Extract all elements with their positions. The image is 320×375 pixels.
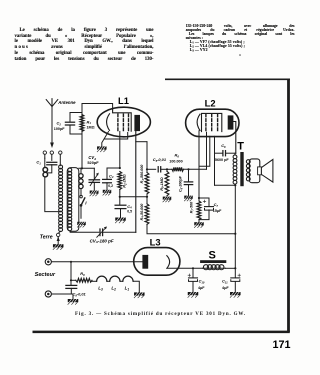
svg-text:100.000: 100.000 bbox=[169, 159, 182, 163]
tuning coil primary bbox=[59, 165, 63, 169]
ground Terre bbox=[53, 244, 64, 247]
ground below R5 bbox=[163, 197, 172, 200]
figure frame bottom rule bbox=[33, 331, 290, 334]
capacitor C8 loop bottom wire bbox=[215, 184, 236, 186]
terminal antenna 1 bbox=[43, 151, 46, 154]
switch I bbox=[80, 195, 83, 198]
tube L2 cathode bbox=[197, 114, 200, 130]
wire R4 to B+ bus bbox=[147, 224, 235, 233]
speaker neck bbox=[258, 167, 262, 175]
svg-text:1MΩ: 1MΩ bbox=[87, 126, 95, 130]
terminal antenna 2 bbox=[50, 151, 53, 154]
capacitor C2 bbox=[70, 113, 82, 122]
ground below C6 bbox=[184, 196, 193, 199]
ground below C10 bbox=[188, 292, 199, 295]
capacitor C6 bbox=[188, 169, 190, 181]
tube L1 grid 2 bbox=[122, 114, 124, 131]
grid cap wire to L1 top bbox=[82, 104, 113, 111]
svg-text:15μF: 15μF bbox=[213, 209, 222, 213]
svg-text:0,2: 0,2 bbox=[108, 184, 113, 188]
tube L1 anode wire down bbox=[135, 131, 137, 232]
antenna coupling coil bbox=[44, 158, 46, 167]
right column text bbox=[186, 24, 295, 56]
left column text bbox=[15, 28, 154, 63]
svg-text:4μF: 4μF bbox=[198, 286, 205, 290]
tube L3 cathode wire bbox=[168, 267, 203, 269]
ground heater end bbox=[134, 292, 145, 295]
ground below C3 bbox=[103, 190, 112, 193]
resistor R8 bbox=[76, 278, 92, 282]
tube L1 suppressor tie wire bbox=[105, 133, 128, 140]
capacitor C4 bbox=[115, 204, 126, 206]
svg-text:Terre: Terre bbox=[40, 235, 53, 241]
capacitor C10 bbox=[189, 277, 198, 279]
ground below CVa bbox=[90, 191, 99, 194]
speaker horn bbox=[261, 159, 273, 182]
capacitor C5-0,01 bbox=[157, 167, 159, 172]
capacitor C7 bbox=[205, 206, 214, 208]
svg-text:L1: L1 bbox=[118, 95, 129, 106]
svg-text:L2: L2 bbox=[205, 98, 216, 109]
ground below R7 bbox=[194, 222, 204, 225]
heater choke L1 bbox=[120, 280, 123, 282]
transformer T primary coil bbox=[233, 155, 237, 159]
B+ rail wire bbox=[234, 185, 236, 268]
svg-text:100pF: 100pF bbox=[54, 127, 65, 131]
tube L2 cathode wire to R7 bbox=[198, 131, 200, 201]
node R2 bottom junction wire bbox=[120, 196, 147, 198]
tube L1 cathode bbox=[107, 114, 110, 131]
svg-text:4μF: 4μF bbox=[222, 286, 229, 290]
svg-text:520pF: 520pF bbox=[87, 160, 99, 165]
choke S core bbox=[200, 260, 226, 263]
antenna symbol bbox=[46, 99, 58, 107]
ground below C4 bbox=[115, 218, 126, 221]
tube L2 grid 1 bbox=[205, 114, 207, 131]
ground mains bbox=[72, 294, 74, 299]
svg-text:S: S bbox=[209, 250, 216, 262]
tube L1 grid2 wire down bbox=[119, 131, 121, 168]
wire R6 to grid of L2 bbox=[184, 168, 207, 170]
choke S right wire bbox=[226, 267, 236, 269]
antenna arrowhead bbox=[50, 143, 54, 149]
variable capacitor CVa-180pF bbox=[99, 229, 101, 236]
wire to C5 bbox=[147, 168, 156, 170]
wire R2 to C4 bbox=[119, 190, 121, 205]
choke S coil bbox=[203, 267, 226, 269]
tube L2 grid box bbox=[202, 113, 222, 131]
figure frame top rule bbox=[165, 78, 290, 80]
tube L1 anode bbox=[134, 115, 140, 131]
svg-text:Antenne: Antenne bbox=[57, 100, 76, 105]
svg-text:Secteur: Secteur bbox=[35, 272, 56, 278]
svg-text:Fig. 3. — Schéma simplifié du: Fig. 3. — Schéma simplifié du récepteur … bbox=[75, 312, 246, 317]
tube L2 envelope bbox=[186, 109, 239, 136]
wire coil secondary bottom to CVa-180 bbox=[70, 231, 99, 232]
wire mains to R8 and C9 bbox=[70, 262, 72, 285]
transformer T secondary coil bbox=[246, 160, 250, 164]
transformer T core bbox=[240, 152, 243, 186]
plus mark C10 bbox=[188, 274, 191, 276]
tube L3 envelope bbox=[134, 248, 180, 276]
antenna lead wire bbox=[51, 107, 53, 144]
capacitor C3 branch wire bbox=[107, 168, 120, 179]
plus mark C11 bbox=[238, 274, 241, 276]
anode jog wire to R3 bbox=[136, 141, 147, 143]
resistor R5 bbox=[166, 169, 168, 171]
capacitor C8 top wire bbox=[215, 152, 223, 154]
resistor R1 bbox=[80, 115, 84, 132]
capacitor C7 wires bbox=[199, 198, 209, 206]
wire R7 to ground bbox=[198, 220, 200, 222]
resistor R2 bbox=[118, 172, 122, 190]
capacitor C8 bbox=[222, 151, 224, 156]
wire grid column bbox=[81, 104, 83, 169]
capacitor C10 wire bbox=[192, 268, 194, 277]
heater choke L3 bbox=[92, 280, 97, 282]
svg-text:171: 171 bbox=[272, 339, 290, 351]
figure frame right rule bbox=[287, 79, 290, 332]
svg-text:L3: L3 bbox=[150, 237, 161, 248]
tuning coil secondary bbox=[68, 168, 72, 172]
plus mark C7 bbox=[203, 200, 206, 202]
svg-text:5600 pF: 5600 pF bbox=[215, 158, 229, 162]
capacitor C8 loop left wire bbox=[214, 153, 216, 185]
heater choke L2 bbox=[107, 280, 110, 282]
variable capacitor CVa 520pF bbox=[93, 168, 95, 179]
tube L1 cathode lead and ground bbox=[102, 132, 109, 147]
svg-text:T: T bbox=[237, 140, 244, 152]
resistor R6 bbox=[172, 167, 184, 171]
mains wire top to rectifier anode bbox=[52, 261, 143, 263]
capacitor C11 wire bbox=[234, 268, 236, 277]
tube L1 grid 3 bbox=[128, 114, 130, 131]
tube L2 anode bbox=[228, 115, 234, 129]
Terre up arrow bbox=[57, 237, 59, 244]
tube L2 grid wire down bbox=[206, 132, 208, 169]
reaction coil bbox=[80, 168, 82, 173]
wire R3 column top bbox=[146, 142, 148, 173]
resistor R3 bbox=[145, 173, 149, 195]
terminal mains A bbox=[45, 259, 51, 265]
wire R3 to R4 bbox=[146, 194, 148, 204]
tuning coil secondary form bbox=[67, 168, 79, 232]
tube L2 screen wire down bbox=[214, 136, 216, 153]
tube L1 grid 1 bbox=[117, 114, 119, 131]
capacitor C9-0,01 bbox=[66, 284, 77, 286]
terminal mains B bbox=[45, 291, 51, 297]
tube L2 anode wire down bbox=[233, 122, 235, 154]
wire coupling coil to coil tap bbox=[45, 177, 58, 212]
resistor R4 bbox=[145, 204, 149, 225]
capacitor C3 bbox=[103, 178, 112, 180]
tube L1 envelope bbox=[97, 107, 150, 137]
mains wire bottom bbox=[52, 293, 74, 295]
speaker housing bbox=[249, 159, 259, 183]
tube L3 cathode bbox=[167, 256, 170, 269]
tube L3 anode bbox=[142, 255, 148, 269]
terminal antenna 3 bbox=[59, 151, 62, 154]
capacitor C11 bbox=[231, 277, 240, 279]
svg-text:0,5: 0,5 bbox=[127, 210, 132, 214]
tube L2 grid 3 bbox=[217, 114, 219, 131]
tube L2 grid 2 bbox=[211, 114, 213, 131]
resistor R7-500 bbox=[197, 201, 201, 220]
heater chain end wire bbox=[133, 281, 139, 292]
ground below C11 bbox=[230, 292, 241, 295]
node grid2 bbox=[119, 167, 121, 169]
ground below switch bbox=[77, 222, 86, 225]
wire coil secondary top to grid node bbox=[79, 167, 95, 169]
tube L2 heater lead shelf bbox=[199, 136, 210, 166]
coil bottom to Terre terminal bbox=[58, 231, 60, 233]
tube L1 grid box bbox=[113, 110, 132, 132]
capacitor C1 bbox=[47, 161, 57, 163]
